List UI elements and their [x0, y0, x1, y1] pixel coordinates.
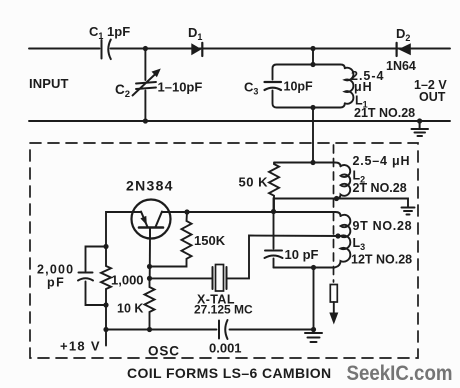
svg-text:2T NO.28: 2T NO.28 — [353, 181, 407, 195]
wire: stub top line to tank — [312, 49, 314, 65]
resistor 150K — [150, 212, 192, 267]
wire: lower input line — [29, 120, 450, 122]
node: junction base / 150K wire — [147, 264, 152, 269]
svg-text:pF: pF — [47, 276, 65, 290]
svg-text:9T NO.28: 9T NO.28 — [353, 219, 413, 233]
wire: ground branch down — [313, 268, 315, 333]
wire: top line C1 to right end — [111, 48, 451, 50]
wire: L2 bottom line — [274, 199, 409, 212]
inductor L2 — [335, 165, 351, 199]
slug adjustment arrow — [329, 302, 338, 325]
node: L3 tap — [335, 233, 340, 238]
svg-text:COIL FORMS LS–6 CAMBION: COIL FORMS LS–6 CAMBION — [127, 365, 332, 381]
wire: bottom rail right segment — [230, 329, 314, 331]
inductor L1 — [345, 68, 354, 104]
svg-text:INPUT: INPUT — [29, 76, 69, 91]
wire: base lead down — [149, 239, 151, 279]
node: junction rail end — [311, 327, 316, 332]
wire: collector to 150K node — [162, 211, 187, 213]
wire: bottom node line to L3 bottom — [274, 267, 335, 269]
node: junction top line / C2 — [143, 46, 148, 51]
wire: emitter to left vertical — [106, 212, 141, 247]
wire: 2000pF bottom branch — [86, 282, 107, 306]
ground (output line) — [412, 121, 429, 136]
wire: collector line to L3 top — [187, 212, 341, 216]
crystal X-TAL 27.125MC — [213, 265, 227, 292]
node: junction rail / +18V stub — [103, 327, 108, 332]
node: junction collector / 150K — [184, 209, 189, 214]
node: junction 10K / rail — [147, 327, 152, 332]
diode D1 — [191, 43, 202, 56]
wire: down to +18V rail — [105, 305, 107, 330]
node: junction lower line / ground — [417, 118, 422, 123]
node: junction tank top — [310, 62, 315, 67]
node: junction 2000pF bottom / 1000 bottom — [103, 302, 108, 307]
wire: crystal line from base — [150, 277, 213, 279]
capacitor 0.001 — [219, 320, 228, 339]
capacitor 10pF (emitter bypass) — [265, 212, 283, 268]
svg-text:0.001: 0.001 — [209, 341, 242, 356]
ground (L2 bottom) — [402, 208, 415, 215]
dashed enclosure box — [30, 143, 418, 358]
svg-text:OUT: OUT — [419, 90, 446, 104]
svg-text:21T NO.28: 21T NO.28 — [354, 106, 415, 120]
wire: bottom rail left segment — [106, 329, 217, 331]
node: junction lower line / C2 — [143, 118, 148, 123]
capacitor C2 (variable) — [133, 49, 161, 122]
wire: +18V terminal stub — [105, 330, 107, 346]
wire: 2000pF top branch — [86, 247, 107, 272]
svg-text:10 K: 10 K — [117, 302, 143, 316]
svg-text:12T NO.28: 12T NO.28 — [351, 253, 412, 267]
svg-text:10 pF: 10 pF — [285, 247, 319, 262]
svg-text:+18 V: +18 V — [60, 339, 101, 354]
coil form slug — [330, 285, 337, 303]
svg-text:2,000: 2,000 — [37, 263, 74, 277]
svg-text:1–10pF: 1–10pF — [158, 80, 203, 95]
resistor 1000 — [101, 247, 111, 306]
svg-text:50 K: 50 K — [239, 175, 269, 190]
diode D2 — [397, 43, 411, 56]
svg-text:2N384: 2N384 — [126, 178, 174, 194]
node: junction tank bottom — [310, 105, 315, 110]
capacitor C1 — [102, 40, 111, 60]
wire: top input line left of C1 — [29, 48, 100, 50]
inductor L3 — [335, 215, 351, 268]
capacitor C3 — [265, 82, 282, 90]
svg-text:2.5–4 μH: 2.5–4 μH — [353, 154, 411, 168]
capacitor 2000pF — [78, 273, 93, 281]
svg-text:150K: 150K — [194, 233, 226, 248]
node: junction base / crystal wire — [147, 276, 152, 281]
transistor Q1 2N384 — [132, 200, 171, 239]
node: junction emitter branch / 2000pF top — [103, 244, 108, 249]
svg-text:OSC: OSC — [148, 344, 180, 359]
node: junction ground branch — [311, 265, 316, 270]
svg-text:10pF: 10pF — [284, 80, 314, 94]
svg-text:μH: μH — [354, 80, 373, 94]
svg-text:C1 1pF: C1 1pF — [89, 24, 130, 41]
svg-text:1N64: 1N64 — [386, 59, 416, 73]
wire: crystal right to L3 tap — [227, 236, 341, 279]
svg-text:27.125 MC: 27.125 MC — [194, 303, 253, 317]
node: junction L2 bottom — [334, 196, 339, 201]
svg-text:SeekIC.com: SeekIC.com — [347, 361, 453, 385]
resistor 50K — [269, 164, 279, 212]
node: junction L2 top feed — [310, 160, 315, 165]
resistor 10K — [145, 278, 155, 329]
wire: tank bottom to L2 top — [312, 108, 314, 163]
tank loop C3 / inductor L1 — [273, 91, 345, 108]
svg-text:1,000: 1,000 — [111, 273, 144, 288]
node: junction top line / tank stub — [310, 46, 315, 51]
coil form dashed core line — [333, 145, 335, 282]
node: junction collector line / 50K-10pF — [271, 209, 276, 214]
ground (oscillator) — [305, 333, 322, 342]
wire: 50K top to L2 top — [274, 163, 341, 167]
